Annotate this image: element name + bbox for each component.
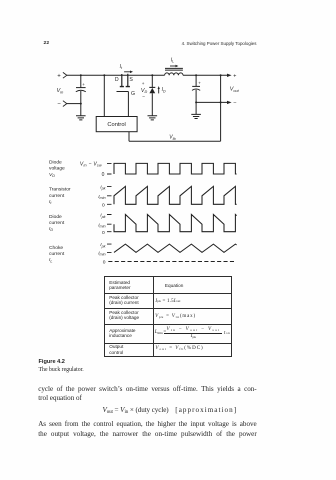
running head xyxy=(182,41,257,46)
svg-text:voltage: voltage xyxy=(49,166,65,172)
current ID label xyxy=(162,87,166,93)
svg-text:ID: ID xyxy=(162,87,166,93)
svg-text:Ipk: Ipk xyxy=(100,213,105,219)
svg-text:current: current xyxy=(49,251,65,257)
node junction control sense xyxy=(103,74,105,76)
figure caption xyxy=(39,359,65,365)
Vout label xyxy=(230,87,240,93)
waveform diode voltage trace xyxy=(114,163,237,174)
svg-text:0: 0 xyxy=(102,202,105,208)
VD plus label xyxy=(142,81,145,86)
svg-text:G: G xyxy=(131,91,135,97)
wire feedback bottom xyxy=(129,132,221,142)
svg-text:+: + xyxy=(233,73,236,79)
wire input minus to C1 xyxy=(67,103,81,105)
ground at C1 xyxy=(76,116,86,120)
svg-text:ID: ID xyxy=(49,226,53,232)
capacitor C2 xyxy=(192,75,201,114)
ground at D1 xyxy=(148,116,158,120)
wire feedback vertical xyxy=(220,75,222,141)
svg-text:Imin: Imin xyxy=(98,251,105,257)
output terminal plus arrow xyxy=(227,73,236,79)
node junction feedback top xyxy=(220,74,222,76)
Vfb label xyxy=(169,135,175,141)
svg-text:0: 0 xyxy=(102,172,105,178)
svg-text:current: current xyxy=(49,193,65,199)
node junction C2 lower xyxy=(195,101,197,103)
waveform row4 zero dashed line xyxy=(108,261,236,263)
waveform row4 axis labels xyxy=(98,242,106,265)
svg-text:+: + xyxy=(57,73,61,79)
svg-text:Ipk: Ipk xyxy=(100,242,105,248)
svg-text:−: − xyxy=(142,95,145,100)
svg-text:VD: VD xyxy=(141,88,148,94)
waveform row3 axis labels xyxy=(98,213,105,236)
node junction feedback output minus xyxy=(220,101,222,103)
VD label xyxy=(141,88,148,94)
current ID arrow xyxy=(158,86,160,93)
row dividers xyxy=(105,293,232,294)
node junction C1 top xyxy=(80,74,82,76)
svg-text:Imin: Imin xyxy=(98,194,105,200)
svg-text:S: S xyxy=(129,77,133,83)
capacitor C1 xyxy=(76,75,86,116)
svg-text:Vin: Vin xyxy=(57,88,64,94)
waveform choke current trace xyxy=(114,244,237,252)
svg-text:0: 0 xyxy=(103,260,106,266)
svg-text:It: It xyxy=(120,64,123,70)
ground at C2 xyxy=(191,114,201,118)
svg-text:−: − xyxy=(57,102,61,108)
pin S label xyxy=(129,77,133,83)
control box U1 xyxy=(96,117,137,132)
transistor Q1 xyxy=(120,74,130,87)
row 2 xyxy=(109,310,139,321)
waveform row4 ticks xyxy=(107,244,112,252)
pin D label xyxy=(115,77,119,83)
svg-text:IL: IL xyxy=(49,257,52,263)
waveform row3 label xyxy=(49,214,65,232)
gate plate of Q1 xyxy=(117,91,129,93)
svg-text:+: + xyxy=(82,82,85,87)
svg-text:IL: IL xyxy=(171,57,174,63)
svg-text:Control: Control xyxy=(107,122,125,128)
svg-text:Diode: Diode xyxy=(49,214,62,220)
Vin label xyxy=(57,88,64,94)
svg-text:D: D xyxy=(115,77,119,83)
current IL label xyxy=(171,57,174,63)
waveform row1 label xyxy=(49,160,65,178)
current It arrow xyxy=(124,71,133,74)
svg-text:Ipk: Ipk xyxy=(100,185,105,191)
output terminal minus arrow xyxy=(227,101,237,107)
svg-text:Transistor: Transistor xyxy=(49,187,71,193)
svg-text:Diode: Diode xyxy=(49,160,62,166)
waveform row4 label xyxy=(49,245,65,263)
svg-text:It: It xyxy=(49,199,52,205)
svg-text:current: current xyxy=(49,220,65,226)
body text xyxy=(38,384,257,394)
column divider xyxy=(153,277,154,355)
waveform row1 axis labels xyxy=(80,161,105,178)
row 1 xyxy=(109,295,138,306)
diode D1 xyxy=(149,75,155,116)
waveform row2 axis labels xyxy=(98,185,105,209)
svg-text:Vin − Vsw: Vin − Vsw xyxy=(80,161,102,167)
input terminal plus xyxy=(57,72,67,79)
svg-text:+: + xyxy=(198,80,201,85)
svg-text:Vout: Vout xyxy=(230,87,240,93)
row 3 xyxy=(109,328,135,339)
wire gate to control xyxy=(127,92,129,117)
wire output minus rail xyxy=(196,101,228,103)
current IL arrow xyxy=(170,65,178,67)
svg-text:+: + xyxy=(142,81,145,86)
waveform row2 ticks xyxy=(107,186,112,204)
page number xyxy=(44,41,50,46)
waveform row2 label xyxy=(49,187,71,205)
header cells xyxy=(109,280,130,291)
waveform transistor current trace xyxy=(114,186,237,204)
input terminal minus xyxy=(57,101,67,108)
inductor L1 xyxy=(165,68,183,75)
VD minus label xyxy=(142,95,145,100)
wire top rail xyxy=(67,74,228,76)
svg-text:Vfb: Vfb xyxy=(169,135,175,141)
row 4 xyxy=(109,344,123,355)
current It label xyxy=(120,64,123,70)
svg-text:Choke: Choke xyxy=(49,245,63,251)
wire control sense xyxy=(103,75,105,116)
waveform diode current trace xyxy=(114,215,237,232)
node junction C1 bottom xyxy=(80,103,82,105)
waveform row1 ticks xyxy=(107,163,112,174)
equation table xyxy=(104,276,233,356)
pin G label xyxy=(131,91,135,97)
node junction C2 top xyxy=(195,74,197,76)
svg-text:−: − xyxy=(233,101,236,107)
svg-text:VD: VD xyxy=(49,172,55,178)
node junction diode top xyxy=(151,74,153,76)
waveform row3 ticks xyxy=(107,215,112,232)
svg-text:Imin: Imin xyxy=(98,222,105,228)
svg-text:0: 0 xyxy=(102,230,105,236)
